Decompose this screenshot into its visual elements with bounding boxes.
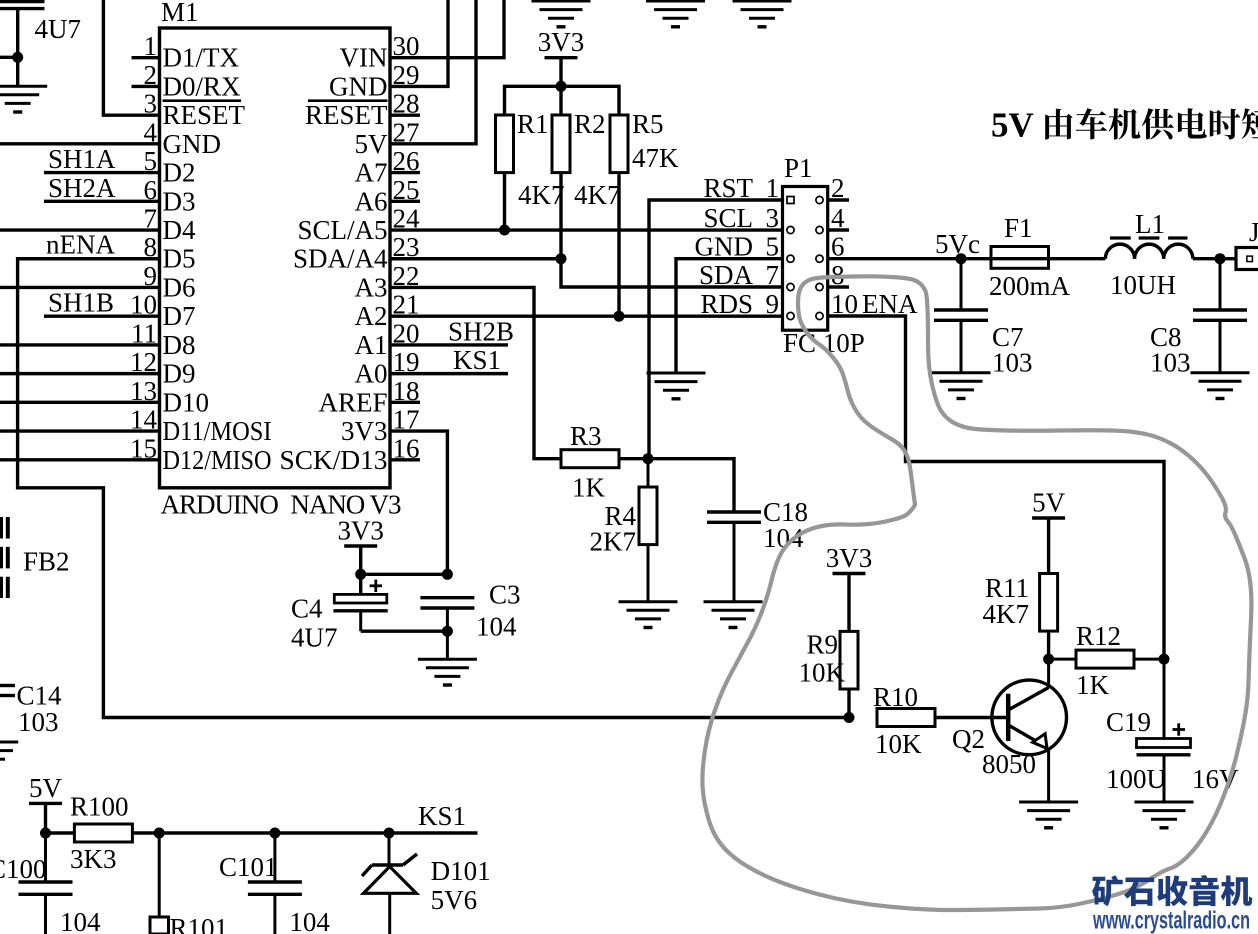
capacitor C3 104 — [420, 580, 520, 660]
capacitor C7 103 — [934, 259, 1033, 378]
node junction R11/R12/Q2 — [1043, 654, 1054, 665]
wire L1 to J — [1193, 257, 1236, 260]
svg-text:R2: R2 — [574, 109, 606, 139]
svg-text:D101: D101 — [431, 856, 491, 886]
wire pin30 VIN up — [390, 0, 504, 58]
ground top-2 — [646, 1, 705, 27]
wire pin13 to left edge — [0, 401, 160, 404]
node junction R3/R4/C18/RST — [643, 453, 654, 464]
svg-text:C101: C101 — [219, 852, 278, 882]
wire 5V to R11 — [1047, 518, 1050, 574]
svg-text:3: 3 — [766, 203, 780, 233]
node P1 label GND pin 5 — [695, 232, 780, 262]
svg-text:D12/MISO: D12/MISO — [163, 445, 272, 475]
svg-text:2K7: 2K7 — [590, 527, 637, 557]
svg-text:1K: 1K — [572, 473, 606, 503]
svg-text:104: 104 — [60, 907, 101, 934]
wire R3 right — [619, 457, 648, 460]
svg-text:L1: L1 — [1135, 209, 1165, 239]
svg-text:FC 10P: FC 10P — [783, 328, 865, 358]
pin 30 (VIN) number+label — [340, 31, 420, 72]
wire stub left — [0, 56, 18, 59]
svg-text:4K7: 4K7 — [518, 180, 565, 210]
wire 3V3 down to C4 — [359, 546, 362, 594]
svg-text:R100: R100 — [70, 792, 129, 822]
svg-text:10K: 10K — [799, 658, 846, 688]
resistor R101 (cut) — [150, 833, 228, 934]
ground Q2 emitter — [1019, 802, 1078, 828]
svg-text:5V: 5V — [29, 773, 63, 803]
wire pin12 to left edge — [0, 372, 160, 375]
wire pin22 A3 to R3 — [390, 287, 561, 458]
pin 1 (D1/TX) number+label — [144, 31, 240, 72]
wire pin27 5V up — [390, 0, 476, 144]
svg-text:RDS: RDS — [700, 289, 753, 319]
wire RST from P1 pin1 down to R3 — [649, 200, 784, 459]
pin 15 (D12/MISO) number+label — [130, 433, 272, 475]
node junction R12/C19/ENA — [1159, 654, 1170, 665]
svg-text:D2: D2 — [163, 158, 196, 188]
connector P1 FC-10P — [783, 153, 865, 358]
svg-text:3V3: 3V3 — [337, 516, 384, 546]
svg-text:KS1: KS1 — [453, 345, 501, 375]
svg-text:FB2: FB2 — [23, 547, 70, 577]
wire R9 bottom — [847, 689, 850, 718]
char 矿 — [1092, 875, 1123, 906]
pin 22 (A3) number+label — [355, 261, 420, 303]
svg-text:1K: 1K — [1076, 670, 1110, 700]
wire P1 pin10 ENA run — [828, 316, 1164, 659]
wire rail — [505, 86, 620, 115]
pin 23 (SDA/A4) number+label — [293, 232, 420, 274]
node junction C3 top — [442, 569, 453, 580]
pin 13 (D10) number+label — [130, 376, 209, 418]
wire R2 bottom — [559, 173, 562, 259]
svg-text:R5: R5 — [632, 109, 664, 139]
ground top-left — [0, 86, 47, 112]
pin 29 (GND) number+label — [329, 60, 420, 102]
ground C3 — [418, 659, 477, 685]
resistor R2 — [552, 109, 621, 210]
svg-text:SH2B: SH2B — [448, 316, 514, 346]
capacitor C19 100U 16V electrolytic — [1106, 659, 1239, 802]
char 收 — [1157, 875, 1187, 906]
wire 3V3 to R9 — [847, 574, 850, 632]
wire pin15 to left edge — [0, 458, 160, 461]
wire pin9 D6 to left edge — [0, 286, 160, 289]
svg-text:RESET: RESET — [305, 100, 388, 130]
wire P1 pin2 stub — [828, 198, 849, 201]
pin 11 (D8) number+label — [131, 318, 196, 360]
node P1 label RDS pin 9 — [700, 289, 779, 319]
svg-text:R1: R1 — [517, 109, 549, 139]
node junction R2/SDA — [556, 253, 567, 264]
ground top-1 — [532, 1, 591, 27]
svg-text:C19: C19 — [1106, 707, 1151, 737]
wire pin16 stub — [390, 458, 420, 461]
wire F1 to L1 — [1049, 257, 1106, 260]
svg-text:3K3: 3K3 — [70, 844, 117, 874]
pin 18 (AREF) number+label — [318, 376, 419, 418]
svg-text:SCL/A5: SCL/A5 — [297, 215, 387, 245]
capacitor C4 4U7 electrolytic — [291, 580, 388, 653]
pin 25 (A6) number+label — [355, 175, 420, 217]
char 机 — [1109, 108, 1141, 139]
wire 3V3 down — [559, 58, 562, 87]
char 电 — [1178, 108, 1207, 138]
node junction 5Vc/C7 — [956, 253, 967, 264]
resistor R10 10K — [873, 682, 935, 759]
resistor R12 1K — [1049, 621, 1164, 700]
wire P1 pin6 5Vc line — [828, 257, 991, 260]
capacitor C8 103 — [1150, 259, 1247, 378]
svg-text:7: 7 — [766, 260, 780, 290]
power 5V supply (bottom) — [29, 773, 63, 804]
svg-text:3V3: 3V3 — [826, 543, 873, 573]
node SH2A wire pin6 — [44, 173, 160, 203]
svg-text:A2: A2 — [355, 301, 388, 331]
pin 14 (D11/MOSI) number+label — [130, 405, 272, 447]
svg-text:47K: 47K — [632, 143, 679, 173]
power 3V3 supply (C4) — [337, 516, 384, 547]
inductor L1 10UH — [1105, 209, 1192, 300]
svg-text:200mA: 200mA — [989, 271, 1071, 301]
svg-text:R10: R10 — [873, 682, 918, 712]
svg-text:SCL: SCL — [703, 203, 753, 233]
wire R1 bottom — [503, 173, 506, 230]
svg-text:4U7: 4U7 — [291, 623, 338, 653]
char 短 — [1242, 108, 1258, 139]
svg-text:C100: C100 — [0, 854, 47, 884]
node junction 5V/C100/R100 — [40, 828, 51, 839]
svg-text:5V6: 5V6 — [431, 885, 478, 915]
svg-text:3V3: 3V3 — [341, 416, 388, 446]
svg-text:103: 103 — [18, 707, 59, 737]
ground R4 — [619, 602, 678, 628]
resistor R4 2K7 — [590, 459, 658, 602]
wire C4-C3 top link — [361, 573, 448, 576]
wire pin7 D4 to left edge — [0, 228, 160, 231]
svg-text:4U7: 4U7 — [35, 14, 82, 44]
ground P1 GND — [647, 373, 706, 399]
svg-text:SCK/D13: SCK/D13 — [280, 445, 388, 475]
wire pin24 SCL/A5 to P1 pin3 — [390, 228, 784, 231]
svg-text:D1/TX: D1/TX — [163, 43, 240, 73]
pin 3 (RESET) number+label — [144, 89, 246, 131]
fuse F1 200mA — [989, 213, 1071, 301]
svg-text:D4: D4 — [163, 215, 196, 245]
node P1 pin 10 ENA label — [831, 289, 918, 319]
svg-text:D10: D10 — [163, 387, 210, 417]
wire gray freeform highlight loop — [702, 276, 1251, 910]
svg-text:D0/RX: D0/RX — [163, 71, 242, 101]
note Chinese annotation 5V... — [991, 106, 1258, 145]
pin 6 (D3) number+label — [144, 175, 196, 217]
svg-text:Q2: Q2 — [952, 724, 985, 754]
svg-text:nENA: nENA — [46, 230, 115, 260]
ground C19 — [1135, 802, 1194, 828]
char 供 — [1142, 108, 1174, 139]
svg-text:VIN: VIN — [340, 43, 388, 73]
svg-text:A6: A6 — [355, 186, 388, 216]
svg-text:www.crystalradio.cn: www.crystalradio.cn — [1092, 907, 1250, 934]
wire 5V down — [44, 803, 47, 833]
svg-text:D5: D5 — [163, 244, 196, 274]
char 音 — [1190, 875, 1219, 906]
capacitor C14 103 (cut at edge) — [0, 681, 62, 738]
wire pin18 stub — [390, 401, 420, 404]
node junction 3V3 rail — [556, 81, 567, 92]
node junction C3 bottom — [442, 626, 453, 637]
wire P1 pin8 stub — [828, 285, 849, 288]
wire pin14 to left edge — [0, 429, 160, 432]
svg-text:A1: A1 — [355, 330, 388, 360]
svg-text:M1: M1 — [161, 0, 199, 27]
node junction C8 tap — [1215, 253, 1226, 264]
wire pin2 stub — [132, 85, 160, 88]
power 3V3 supply (R9) — [826, 543, 873, 574]
node SH1A wire pin5 — [44, 144, 160, 174]
svg-text:103: 103 — [1150, 348, 1191, 378]
svg-text:A7: A7 — [355, 158, 388, 188]
svg-text:SH2A: SH2A — [48, 173, 116, 203]
ground C14 (partial) — [0, 742, 18, 759]
zener diode D101 5V6 — [362, 833, 491, 934]
node KS1 wire (main bottom rail) — [46, 801, 478, 833]
svg-text:5V: 5V — [355, 129, 389, 159]
wire C4-C3 bottom link — [361, 630, 448, 633]
pin 27 (5V) number+label — [355, 117, 420, 159]
svg-text:D3: D3 — [163, 186, 196, 216]
svg-text:SDA/A4: SDA/A4 — [293, 244, 388, 274]
pin 19 (A0) number+label — [355, 347, 420, 389]
svg-text:D9: D9 — [163, 359, 196, 389]
pin 12 (D9) number+label — [130, 347, 196, 389]
svg-text:3V3: 3V3 — [538, 27, 585, 57]
ground C18 — [704, 602, 763, 628]
node P1 label SDA pin 7 — [699, 260, 779, 290]
ground C7 — [932, 373, 991, 399]
node P1 label RST pin 1 — [703, 173, 779, 203]
svg-text:D6: D6 — [163, 272, 196, 302]
wire P1 pin4 stub — [828, 228, 849, 231]
ferrite bead FB2 (cut at edge) — [1, 517, 70, 598]
pin 10 (D7) number+label — [130, 290, 196, 332]
svg-text:AREF: AREF — [318, 387, 387, 417]
svg-text:4K7: 4K7 — [574, 180, 621, 210]
power 5V supply (R11) — [1032, 488, 1066, 519]
svg-text:C4: C4 — [291, 594, 323, 624]
wire pin21 A2 to P1 pin9 — [390, 314, 784, 317]
pin 9 (D6) number+label — [144, 261, 196, 303]
node nENA wire pin8 D5 long run to R10 — [18, 230, 849, 718]
node junction R9/nENA/R10 — [844, 712, 855, 723]
capacitor C101 104 — [219, 833, 330, 934]
node junction C101 tap — [269, 828, 280, 839]
wire pin4 GND to left edge — [0, 142, 160, 145]
char 时 — [1210, 109, 1241, 140]
resistor R100 3K3 — [70, 792, 132, 875]
svg-text:GND: GND — [329, 71, 388, 101]
svg-text:SH1A: SH1A — [48, 144, 116, 174]
char 石 — [1124, 878, 1154, 907]
power 3V3 supply (top) — [538, 27, 585, 58]
resistor R5 — [610, 109, 679, 173]
pin 21 (A2) number+label — [355, 290, 420, 332]
op-amp / MCU module U-M1 Arduino Nano box — [160, 0, 402, 520]
pin 2 (D0/RX) number+label — [144, 60, 242, 102]
pin 28 (RESET) number+label — [305, 89, 420, 131]
wire SDA drop to P1 pin7 row — [561, 259, 784, 287]
wire pin29 GND up — [390, 0, 448, 86]
char 车 — [1076, 108, 1107, 139]
wire pin17 3V3 down to C4/C3 — [390, 431, 447, 574]
svg-text:10K: 10K — [875, 729, 922, 759]
svg-text:SH1B: SH1B — [48, 288, 114, 318]
node junction — [12, 52, 23, 63]
wire pin11 to left edge — [0, 343, 160, 346]
pin 8 (D5) number+label — [144, 232, 196, 274]
svg-text:R101: R101 — [170, 913, 229, 934]
note watermark crystalradio logo — [1092, 875, 1252, 906]
wire pin1 stub — [132, 56, 160, 59]
wire cap to ground — [16, 9, 19, 87]
svg-text:KS1: KS1 — [418, 801, 466, 831]
node junction C4 top — [355, 569, 366, 580]
resistor R1 — [496, 109, 565, 210]
svg-text:D8: D8 — [163, 330, 196, 360]
svg-text:C3: C3 — [489, 580, 521, 610]
svg-text:R12: R12 — [1076, 621, 1121, 651]
char 由 — [1045, 109, 1072, 140]
svg-text:RESET: RESET — [163, 100, 246, 130]
svg-text:D7: D7 — [163, 301, 196, 331]
node SH2B wire pin20 — [390, 316, 514, 346]
node junction R5/A2 — [614, 311, 625, 322]
svg-text:D11/MOSI: D11/MOSI — [163, 416, 272, 446]
pin 17 (3V3) number+label — [341, 405, 420, 447]
resistor R11 4K7 — [983, 573, 1058, 631]
svg-text:F1: F1 — [1004, 213, 1033, 243]
svg-text:9: 9 — [766, 289, 780, 319]
svg-text:4K7: 4K7 — [983, 599, 1030, 629]
capacitor C100 104 (cut) — [0, 833, 101, 934]
wire R5 bottom — [617, 173, 620, 317]
pin 16 (SCK/D13) number+label — [280, 433, 420, 475]
wire pin3 RESET to top — [103, 0, 159, 115]
svg-text:103: 103 — [992, 348, 1033, 378]
svg-text:J: J — [1249, 217, 1258, 247]
wire pin25 stub — [390, 200, 420, 203]
svg-text:R9: R9 — [806, 630, 838, 660]
capacitor 4U7 (top-left, cut) — [0, 2, 81, 45]
node P1 label SCL pin 3 — [703, 203, 779, 233]
pin 7 (D4) number+label — [144, 204, 196, 246]
svg-text:P1: P1 — [784, 153, 813, 183]
svg-text:5V: 5V — [991, 106, 1034, 145]
svg-text:SDA: SDA — [699, 260, 754, 290]
resistor R9 10K — [799, 630, 859, 690]
wire pin28 stub — [390, 113, 420, 116]
wire R2 top — [559, 86, 562, 115]
node junction R101 tap — [154, 828, 165, 839]
pin 20 (A1) number+label — [355, 318, 420, 360]
node junction R1/SCL — [499, 225, 510, 236]
ground C8 — [1191, 373, 1250, 399]
wire pin23 SDA/A4 — [390, 257, 561, 260]
transistor Q2 8050 — [952, 659, 1067, 802]
resistor R3 1K — [561, 421, 619, 503]
svg-text:GND: GND — [163, 129, 222, 159]
node SH1B wire pin10 — [44, 288, 160, 318]
svg-text:10UH: 10UH — [1110, 270, 1176, 300]
svg-text:100U: 100U — [1106, 764, 1166, 794]
svg-text:8050: 8050 — [982, 749, 1036, 779]
svg-text:A3: A3 — [355, 272, 388, 302]
pin 24 (SCL/A5) number+label — [297, 204, 420, 246]
wire pin26 stub — [390, 171, 420, 174]
wire R11 bottom — [1047, 631, 1050, 659]
wire R10 to Q2 base — [935, 716, 1008, 719]
svg-text:C14: C14 — [17, 681, 63, 711]
node junction D101 tap — [384, 828, 395, 839]
svg-text:A0: A0 — [355, 359, 388, 389]
node KS1 wire pin19 — [390, 345, 508, 375]
capacitor C18 104 — [648, 459, 808, 602]
pin 26 (A7) number+label — [355, 146, 420, 188]
pin 5 (D2) number+label — [144, 146, 196, 188]
wire GND row P1 pin5 — [676, 259, 784, 373]
connector J (cut at edge) — [1236, 217, 1258, 270]
char 机 — [1221, 876, 1253, 907]
svg-text:104: 104 — [476, 612, 517, 642]
svg-text:104: 104 — [289, 907, 330, 934]
ground top-3 — [733, 1, 792, 27]
pin 4 (GND) number+label — [144, 117, 222, 159]
svg-text:R3: R3 — [570, 421, 602, 451]
svg-text:5V: 5V — [1032, 488, 1066, 518]
